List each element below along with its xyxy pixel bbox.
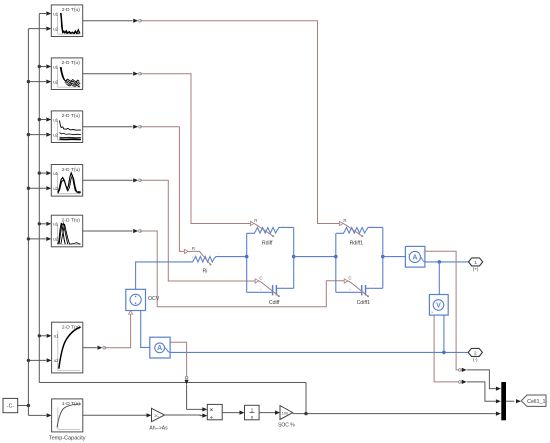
svg-text:-C-: -C- — [7, 404, 14, 410]
svg-text:Temp-Capacity: Temp-Capacity — [49, 435, 86, 441]
svg-text:u1: u1 — [53, 171, 58, 176]
svg-text:×: × — [210, 407, 213, 413]
svg-text:+: + — [407, 253, 409, 257]
svg-text:+: + — [191, 255, 193, 259]
svg-text:V: V — [436, 302, 441, 309]
svg-text:u2: u2 — [53, 237, 58, 242]
svg-text:R: R — [254, 218, 257, 223]
svg-text:R: R — [192, 246, 195, 251]
svg-text:Ah-->As: Ah-->As — [149, 426, 168, 432]
svg-text:SOC %: SOC % — [278, 422, 295, 428]
svg-text:u1: u1 — [53, 117, 58, 122]
svg-text:R: R — [343, 218, 346, 223]
svg-text:u2: u2 — [53, 132, 58, 137]
svg-text:C: C — [348, 276, 351, 281]
svg-text:Cell1_1: Cell1_1 — [527, 399, 545, 405]
svg-text:Ri: Ri — [203, 268, 208, 274]
svg-text:u2: u2 — [54, 358, 59, 363]
svg-text:2-D T(u): 2-D T(u) — [62, 60, 80, 66]
svg-text:C: C — [259, 276, 262, 281]
svg-text:(+): (+) — [473, 267, 479, 272]
svg-text:OCV: OCV — [148, 296, 160, 302]
svg-text:u1: u1 — [53, 11, 58, 16]
svg-text:+: + — [260, 288, 262, 292]
svg-text:+: + — [344, 229, 346, 233]
svg-text:2-D T(u): 2-D T(u) — [62, 218, 80, 224]
svg-text:2: 2 — [474, 350, 477, 356]
svg-text:÷: ÷ — [210, 415, 213, 421]
svg-text:u1: u1 — [54, 334, 59, 339]
svg-text:100: 100 — [282, 411, 288, 415]
svg-text:+: + — [255, 229, 257, 233]
svg-text:Cdiff: Cdiff — [269, 300, 280, 306]
svg-text:Cdiff1: Cdiff1 — [357, 300, 371, 306]
svg-text:u1: u1 — [53, 64, 58, 69]
svg-text:Rdiff1: Rdiff1 — [350, 241, 364, 247]
svg-text:u1: u1 — [53, 222, 58, 227]
svg-text:2-D T(u): 2-D T(u) — [62, 7, 80, 13]
svg-text:-K-: -K- — [154, 413, 160, 418]
svg-text:1: 1 — [474, 260, 477, 266]
svg-text:Rdiff: Rdiff — [262, 241, 273, 247]
svg-text:u2: u2 — [53, 186, 58, 191]
svg-text:(-): (-) — [473, 357, 478, 362]
svg-text:u2: u2 — [53, 26, 58, 31]
svg-text:A: A — [412, 254, 417, 261]
svg-text:+: + — [349, 288, 351, 292]
svg-text:2-D T(u): 2-D T(u) — [62, 113, 80, 119]
svg-text:u2: u2 — [53, 79, 58, 84]
svg-text:A: A — [157, 345, 162, 352]
